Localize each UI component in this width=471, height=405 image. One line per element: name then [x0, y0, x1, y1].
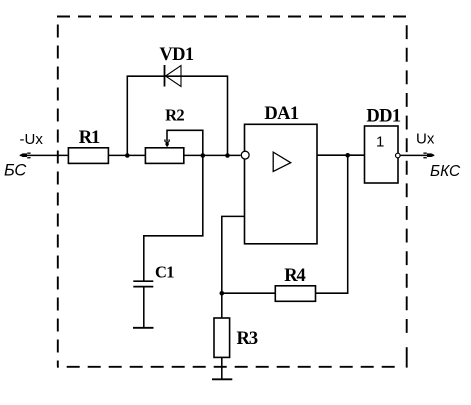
svg-text:БКС: БКС [430, 163, 461, 180]
wiper arrowhead [164, 139, 170, 147]
wire R3 lower lead [221, 357, 223, 379]
node junction feedback [345, 153, 350, 158]
wire R2 to DA1 input [184, 154, 241, 156]
dashed enclosure border bottom [57, 366, 403, 368]
svg-text:Ux: Ux [416, 131, 435, 148]
svg-text:C1: C1 [155, 262, 174, 281]
wire R4 to feedback node [316, 155, 348, 293]
wire DA1 output to DD1 [317, 154, 365, 156]
wire to capacitor C1 [144, 155, 203, 281]
diode VD1 [165, 65, 182, 87]
wiper wire R2 [167, 130, 203, 155]
DA1 input circle [241, 151, 249, 159]
svg-text:БС: БС [4, 162, 26, 180]
svg-text:DA1: DA1 [264, 104, 299, 124]
DD1 output circle [396, 153, 401, 158]
svg-text:DD1: DD1 [366, 107, 401, 127]
node junction R3/R4 [220, 291, 225, 296]
node junction wiper [201, 153, 206, 158]
svg-text:-Ux: -Ux [20, 131, 44, 148]
dashed enclosure border right [406, 17, 408, 342]
dashed enclosure border top [57, 16, 407, 18]
wire diode loop [127, 76, 227, 155]
logic element DD1 [365, 126, 399, 183]
wire junction to R4 [222, 292, 275, 294]
resistor R1 [68, 148, 108, 164]
node junction diode right [225, 153, 230, 158]
dashed enclosure border right end dash [406, 347, 408, 367]
wire C1 lower lead [143, 287, 145, 328]
resistor R4 [275, 286, 315, 302]
wire R1 to R2 [108, 154, 145, 156]
wire input to R1 [20, 154, 69, 156]
wire DA1 lower input [222, 216, 245, 318]
svg-text:VD1: VD1 [159, 45, 194, 65]
input arrow -Ux [20, 153, 31, 159]
resistor R3 [214, 318, 230, 357]
node junction diode left [125, 153, 130, 158]
capacitor C1 [133, 281, 153, 286]
op-amp DA1 [245, 124, 318, 244]
svg-text:R2: R2 [165, 105, 184, 124]
wire output Ux [400, 154, 434, 156]
svg-text:R4: R4 [284, 266, 305, 286]
output arrow Ux [423, 153, 434, 159]
resistor R2 (potentiometer) [145, 148, 183, 164]
ground bar below R3 [212, 378, 232, 380]
ground bar below C1 [133, 327, 154, 329]
dashed enclosure border left [57, 17, 59, 367]
svg-text:1: 1 [376, 134, 384, 151]
svg-text:R1: R1 [79, 128, 100, 148]
svg-text:R3: R3 [237, 329, 258, 349]
op-amp triangle symbol [273, 152, 291, 171]
